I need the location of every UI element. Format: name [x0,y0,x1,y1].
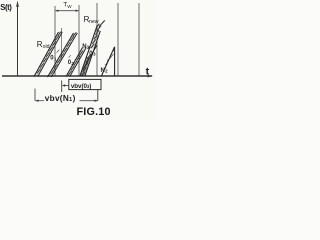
ribbon O2 hatch [51,32,76,74]
vbv(N1) dimension line right [80,100,98,102]
steep band hatch top [91,24,100,49]
Tw right arrowhead [76,10,79,12]
svg-text:W: W [67,4,72,9]
ribbon O1: R_old rate line left [34,32,59,77]
O1 leader tick [57,50,60,53]
vbv(N1) dimension line left [35,100,44,102]
N2 hatch [110,50,115,59]
R_new leader arrow [100,20,105,25]
N2 triangle hypotenuse [102,47,115,76]
ribbon 3 hatch [68,51,83,75]
left arrowhead [35,100,38,102]
axis S(t) vertical [17,3,19,76]
dim tick x=97.8 (shared right) [97,90,99,101]
vbv(O3) arrow [63,85,68,87]
vertical gridline x=139 [138,3,140,76]
right arrowhead [94,100,98,102]
steep ramp SR (R_new right) [85,31,101,76]
ribbon O1 fill [34,32,62,77]
ribbon O1: right line [38,32,63,77]
ribbon O2: right line [51,33,77,77]
vertical gridline x=79 [78,5,80,76]
vbv(O3) box [69,79,101,89]
ribbon 3 right line [70,48,87,77]
dim tick x=63.7 (vbv O3 left) [61,81,63,93]
vertical gridline x=55 [54,6,56,76]
background [0,0,156,120]
N2 triangle right edge [114,47,116,76]
svg-text:t: t [146,65,150,77]
steep band top fill [90,27,101,49]
axis arrowhead top [16,1,19,7]
svg-text:vbv(03): vbv(03) [71,83,91,90]
steep band bottom fill [80,57,91,76]
old-rate line O3 inside new band [83,45,97,70]
ribbon O3/N? third old ribbon left line [66,48,83,77]
vertical gridline x=97 [96,3,98,76]
dim tick x=35 (vbv N1 left) [34,89,36,101]
steep band hatch bottom [81,54,90,76]
Tw dimension line [56,10,79,12]
steep ramp SL (R_new left) [80,25,98,76]
vertical gridline x=118 [117,3,119,76]
t axis arrowhead [148,75,154,78]
svg-text:FIG.10: FIG.10 [77,106,111,118]
baseline t-axis [2,75,152,77]
ribbon O2: left line [48,33,74,77]
ribbon O1 hatch [37,31,61,73]
svg-text:new: new [89,19,99,25]
ribbon 3 fill [66,48,86,77]
vertical gridline x=61.5 [61,28,63,59]
svg-text:S(t): S(t) [0,3,12,12]
Tw left arrowhead [55,10,58,12]
ribbon O2 fill [48,33,78,77]
N2 leader [105,60,108,66]
O2 leader tick [69,55,71,58]
O3 leader arrow [88,45,91,48]
